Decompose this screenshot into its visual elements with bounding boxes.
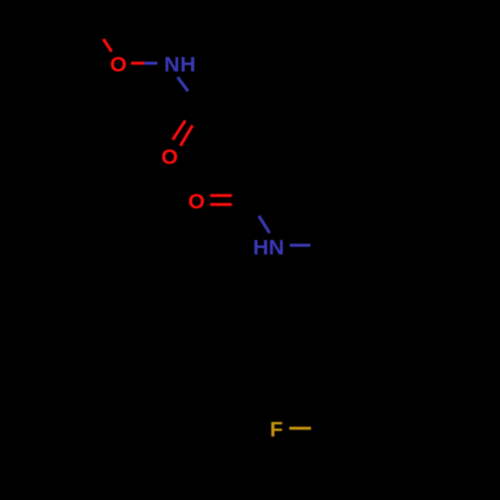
svg-text:O: O xyxy=(188,190,205,214)
svg-text:H: H xyxy=(253,236,269,260)
svg-text:N: N xyxy=(269,236,285,260)
svg-text:N: N xyxy=(164,53,180,77)
svg-text:O: O xyxy=(161,145,178,169)
svg-text:O: O xyxy=(110,53,127,77)
svg-text:H: H xyxy=(180,53,196,77)
svg-text:F: F xyxy=(270,417,283,441)
